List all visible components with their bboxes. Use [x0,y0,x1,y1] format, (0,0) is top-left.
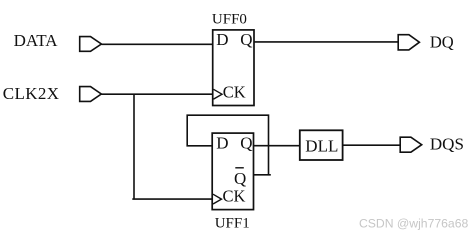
output buffer DQS pad [400,137,422,152]
input buffer DATA pad [80,37,102,52]
svg-text:CK: CK [223,187,246,206]
svg-text:DLL: DLL [305,137,338,156]
svg-text:CK: CK [223,82,246,101]
svg-text:DQS: DQS [430,135,464,154]
wire CLK2X branch vertical [133,94,135,200]
block DLL [300,130,343,160]
flip-flop UFF1 [212,133,253,210]
svg-text:UFF1: UFF1 [215,216,250,232]
wire UFF1 Qbar out [254,174,271,176]
wire CLK2X to UFF0 CK [101,93,213,95]
svg-text:D: D [216,133,228,152]
wire UFF1 Q to DLL [254,145,301,147]
svg-text:CSDN @wjh776a68: CSDN @wjh776a68 [359,216,468,230]
wire DATA to UFF0 D [101,43,213,45]
wire UFF0 Q to DQ [254,41,399,43]
svg-text:DATA: DATA [14,31,59,50]
svg-text:Q: Q [240,133,252,152]
svg-text:DQ: DQ [430,33,454,52]
wire feedback up-over-down to D [187,115,268,175]
svg-text:Q: Q [240,30,252,49]
input buffer CLK2X pad [80,87,102,102]
svg-text:Q: Q [234,169,246,188]
wire DLL to DQS [343,144,401,146]
svg-text:UFF0: UFF0 [212,11,247,27]
output buffer DQ pad [398,35,419,50]
wire CLK2X branch to UFF1 CK [132,198,212,200]
flip-flop UFF0 [213,30,254,106]
svg-text:CLK2X: CLK2X [3,84,60,103]
svg-text:D: D [216,30,228,49]
